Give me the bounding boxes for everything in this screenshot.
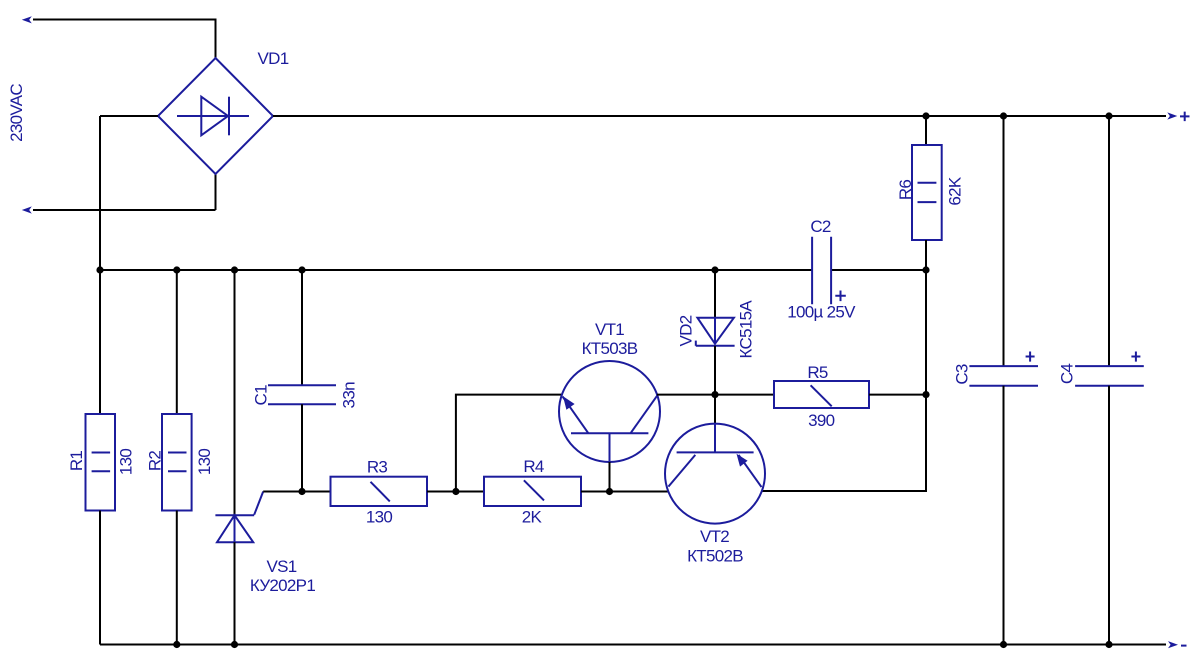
- bridge rectifier VD1: [158, 58, 273, 174]
- svg-text:R4: R4: [523, 457, 544, 476]
- svg-text:R3: R3: [367, 458, 388, 477]
- capacitor C1: [268, 385, 336, 404]
- wire left vertical to bus: [99, 116, 101, 270]
- wire VD2 bottom lead: [714, 346, 716, 395]
- wire R3 to R4: [427, 491, 484, 493]
- junction VD2 R5 node: [711, 391, 718, 398]
- AC input arrow bottom: [22, 206, 32, 213]
- minus label bottom right: [1181, 645, 1187, 647]
- plus mark C3: [1026, 352, 1035, 362]
- arrow DC+ output: [1167, 112, 1177, 119]
- svg-text:КС515А: КС515А: [737, 300, 756, 359]
- resistor R1: [86, 414, 116, 511]
- wire C1 top lead: [301, 270, 303, 385]
- zener diode VD2: [696, 318, 735, 346]
- wire VT1 collector to VD2 node: [657, 394, 715, 396]
- wire C1 bottom lead: [301, 404, 303, 491]
- plus mark C2: [835, 291, 846, 302]
- junction bottom bus at R2: [173, 641, 180, 648]
- wire C3 top lead: [1003, 116, 1005, 366]
- junction mid bus at C2 right: [922, 266, 929, 273]
- svg-text:62K: 62K: [946, 176, 965, 206]
- junction R5 right riser: [922, 391, 929, 398]
- wire bridge left stub: [100, 115, 158, 117]
- wire VD2 top lead: [714, 270, 716, 318]
- junction mid bus at R2: [173, 266, 180, 273]
- junction bottom bus at C3: [1000, 641, 1007, 648]
- plus label top right: [1180, 112, 1190, 122]
- svg-text:R6: R6: [896, 180, 915, 201]
- svg-text:R2: R2: [146, 451, 165, 472]
- transistor VT1: [559, 361, 660, 462]
- svg-text:230VAC: 230VAC: [7, 84, 26, 142]
- wire VS1 cathode lead: [234, 542, 236, 644]
- svg-text:C2: C2: [810, 217, 831, 236]
- wire DC+ top bus: [273, 115, 1166, 117]
- resistor R3: [331, 477, 428, 506]
- capacitor C3: [969, 366, 1038, 386]
- junction R3 R4 node: [452, 488, 459, 495]
- plus mark C4: [1131, 352, 1140, 362]
- svg-text:C1: C1: [252, 385, 271, 406]
- wire R1 bottom lead: [99, 511, 101, 645]
- thyristor VS1: [215, 492, 263, 543]
- junction top bus at C3: [1000, 112, 1007, 119]
- wire R6 bottom lead: [925, 240, 927, 270]
- resistor R4: [484, 477, 581, 506]
- svg-text:33n: 33n: [340, 382, 359, 409]
- resistor R2: [162, 414, 192, 511]
- junction mid bus at VS1: [231, 266, 238, 273]
- wire AC bottom line: [33, 174, 216, 210]
- svg-text:130: 130: [117, 449, 136, 476]
- arrow DC- output: [1168, 641, 1178, 648]
- junction mid bus at VD2: [711, 266, 718, 273]
- svg-text:C4: C4: [1058, 364, 1077, 385]
- junction bottom bus at C4: [1105, 641, 1112, 648]
- resistor R5: [774, 381, 869, 408]
- junction VT1 base node: [606, 488, 613, 495]
- svg-text:VD2: VD2: [677, 315, 696, 346]
- AC input arrow top: [22, 16, 32, 23]
- wire R2 bottom lead: [176, 511, 178, 645]
- svg-text:R1: R1: [67, 451, 86, 472]
- wire VT1 base lead: [609, 462, 611, 492]
- wire mid bus left part: [100, 269, 812, 271]
- junction gate wire at C1: [298, 488, 305, 495]
- svg-text:VT2: VT2: [700, 527, 729, 546]
- wire C4 top lead: [1108, 116, 1110, 366]
- wire R1 top lead: [99, 270, 101, 414]
- svg-text:2K: 2K: [522, 508, 543, 527]
- svg-text:R5: R5: [807, 363, 828, 382]
- wire riser to VT1 emitter: [456, 395, 562, 492]
- junction top bus at R6: [922, 112, 929, 119]
- svg-text:C3: C3: [953, 364, 972, 385]
- svg-text:VD1: VD1: [258, 49, 289, 68]
- wire R6 top lead: [925, 116, 927, 145]
- svg-text:VS1: VS1: [266, 557, 296, 576]
- wire VT2 base lead: [714, 395, 716, 453]
- wire R5 to right riser: [869, 394, 926, 396]
- capacitor C4: [1075, 366, 1144, 386]
- wire R4 to VT2 emitter: [581, 491, 668, 493]
- wire mid bus right part: [831, 269, 926, 271]
- wire C4 bottom lead: [1108, 386, 1110, 645]
- junction mid bus at R1: [96, 266, 103, 273]
- wire R2 top lead: [176, 270, 178, 414]
- junction bottom bus at VS1: [231, 641, 238, 648]
- svg-text:КТ503В: КТ503В: [582, 339, 638, 358]
- junction mid bus at C1: [298, 266, 305, 273]
- svg-text:130: 130: [366, 508, 393, 527]
- resistor R6: [912, 145, 942, 240]
- transistor VT2: [665, 424, 765, 524]
- wire VS1 gate to R3: [263, 491, 330, 493]
- wire VD2 node to R5: [715, 394, 774, 396]
- wire right riser: [762, 270, 926, 491]
- wire bottom bus: [100, 644, 1166, 646]
- svg-text:КТ502В: КТ502В: [687, 547, 743, 566]
- svg-text:130: 130: [195, 449, 214, 476]
- svg-text:390: 390: [808, 411, 835, 430]
- capacitor C2: [812, 237, 831, 304]
- wire VS1 anode lead: [234, 270, 236, 515]
- svg-text:КУ202Р1: КУ202Р1: [250, 576, 315, 595]
- wire AC top line: [33, 20, 216, 59]
- wire C3 bottom lead: [1003, 386, 1005, 645]
- svg-text:VT1: VT1: [595, 320, 624, 339]
- svg-text:100µ 25V: 100µ 25V: [787, 303, 856, 322]
- junction top bus at C4: [1105, 112, 1112, 119]
